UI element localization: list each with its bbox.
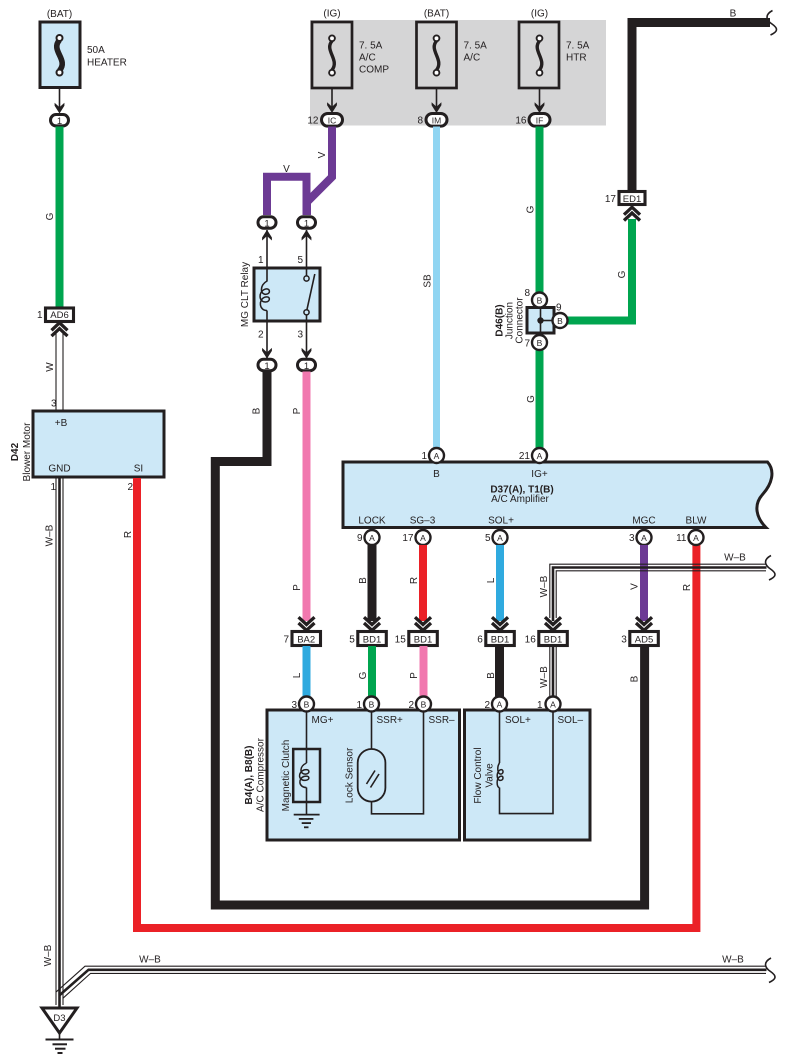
connector 3 AD5 xyxy=(630,632,659,646)
svg-text:(IG): (IG) xyxy=(531,9,548,20)
svg-text:GND: GND xyxy=(48,464,70,475)
arrow up (pin 1) xyxy=(262,230,272,241)
svg-text:IG+: IG+ xyxy=(531,469,548,480)
svg-text:11: 11 xyxy=(676,533,687,544)
arrow into IC xyxy=(327,102,337,113)
svg-text:15: 15 xyxy=(395,635,407,646)
svg-text:5: 5 xyxy=(349,635,355,646)
svg-text:(IG): (IG) xyxy=(323,9,340,20)
arrow into IM xyxy=(432,102,442,113)
svg-text:AD5: AD5 xyxy=(635,635,653,646)
svg-text:SOL+: SOL+ xyxy=(488,516,514,527)
svg-text:7. 5A: 7. 5A xyxy=(566,41,590,52)
svg-text:17: 17 xyxy=(402,533,414,544)
connector IM xyxy=(426,114,447,127)
svg-text:BD1: BD1 xyxy=(544,635,562,646)
connector 1 (relay pin 3 bottom) xyxy=(298,359,316,370)
svg-text:17: 17 xyxy=(605,194,617,205)
svg-text:G: G xyxy=(526,205,537,213)
svg-text:R: R xyxy=(123,531,134,538)
svg-text:G: G xyxy=(358,671,369,679)
connector IF xyxy=(529,114,550,127)
wire P (BD1 to compressor SSR-) xyxy=(420,646,428,697)
wire B (BD1 to compressor SOL+) xyxy=(495,646,504,697)
connector ED1 xyxy=(619,192,645,205)
relay switch xyxy=(306,268,308,276)
wire L (SOL+ to BD1) xyxy=(496,545,504,621)
chevron arrows into 5 BD1 xyxy=(364,617,380,624)
svg-text:B: B xyxy=(557,316,563,326)
svg-text:21: 21 xyxy=(519,451,531,462)
svg-text:R: R xyxy=(682,584,693,591)
connector 7 BA2 xyxy=(292,632,321,646)
svg-text:1: 1 xyxy=(264,361,269,372)
wire G (BD1 to compressor SSR+) xyxy=(368,646,376,697)
lead to relay pin 5 xyxy=(306,230,308,268)
svg-text:BD1: BD1 xyxy=(414,635,432,646)
lead from 50A fuse xyxy=(59,88,61,113)
svg-text:SG–3: SG–3 xyxy=(410,516,436,527)
svg-text:6: 6 xyxy=(477,635,483,646)
svg-text:2: 2 xyxy=(484,700,490,711)
fuse 7.5A A/C xyxy=(417,9,488,89)
svg-text:L: L xyxy=(486,577,497,583)
pin 2 B (SSR-) xyxy=(416,697,431,712)
svg-text:9: 9 xyxy=(357,533,363,544)
svg-text:1: 1 xyxy=(304,361,309,372)
svg-text:B: B xyxy=(537,338,543,348)
wire W (AD6 to blower +B) xyxy=(55,332,57,410)
svg-text:(BAT): (BAT) xyxy=(47,9,72,20)
svg-text:D42: D42 xyxy=(10,442,21,461)
svg-text:A: A xyxy=(434,451,440,461)
svg-text:8: 8 xyxy=(417,116,423,127)
wire W-B (branch to right, bottom) xyxy=(56,966,766,992)
lead from A/C COMP fuse xyxy=(331,88,333,111)
svg-text:IF: IF xyxy=(536,115,544,125)
A/C compressor B4(A), B8(B) xyxy=(267,710,460,840)
svg-text:BA2: BA2 xyxy=(297,635,315,646)
connector AD6 xyxy=(46,308,74,322)
svg-text:50A: 50A xyxy=(87,45,105,56)
lead from relay pin 2 xyxy=(266,321,268,358)
svg-text:L: L xyxy=(292,672,303,678)
wire B (relay pin 2 to AD5 leg, thick black run) xyxy=(215,372,644,906)
svg-text:A: A xyxy=(537,451,543,461)
connector 5 BD1 xyxy=(358,632,387,646)
wire break symbol (right, W-B) xyxy=(766,556,776,581)
svg-text:G: G xyxy=(45,212,56,220)
svg-text:3: 3 xyxy=(291,700,297,711)
svg-text:1: 1 xyxy=(258,255,264,266)
svg-text:V: V xyxy=(283,164,290,175)
svg-text:1: 1 xyxy=(37,310,43,321)
chevron arrows into 16 BD1 xyxy=(545,617,561,624)
pin 9 B (junction right) xyxy=(553,313,568,328)
svg-text:B: B xyxy=(486,672,497,679)
svg-text:3: 3 xyxy=(51,399,57,410)
svg-text:1: 1 xyxy=(304,218,309,229)
magnetic clutch xyxy=(306,711,308,763)
wire W-B (16 BD1 to compressor SOL-) xyxy=(549,646,551,697)
svg-text:7: 7 xyxy=(283,635,289,646)
svg-text:W–B: W–B xyxy=(722,955,744,966)
svg-text:Valve: Valve xyxy=(485,763,496,788)
pin 8 B (junction top) xyxy=(532,293,547,308)
connector 1 (relay pin 1 top) xyxy=(258,217,276,228)
svg-text:2: 2 xyxy=(127,482,133,493)
chevron arrows into 6 BD1 xyxy=(492,617,508,624)
svg-text:3: 3 xyxy=(621,635,627,646)
chevron arrows into 15 BD1 xyxy=(415,617,431,624)
svg-text:SOL–: SOL– xyxy=(558,715,584,726)
svg-text:A/C: A/C xyxy=(359,53,376,64)
svg-text:BLW: BLW xyxy=(686,516,707,527)
svg-text:7: 7 xyxy=(524,339,530,350)
svg-text:V: V xyxy=(317,151,328,158)
relay MG CLT Relay xyxy=(254,268,320,321)
svg-text:8: 8 xyxy=(524,288,530,299)
svg-text:W–B: W–B xyxy=(724,553,746,564)
lead from A/C fuse xyxy=(436,88,438,111)
svg-text:W: W xyxy=(45,362,56,372)
wire W-B (16 BD1 up and right to break) xyxy=(550,564,766,618)
arrow into IF xyxy=(535,102,545,113)
fuse panel (gray) xyxy=(310,20,606,126)
svg-text:5: 5 xyxy=(297,255,303,266)
svg-text:R: R xyxy=(409,577,420,584)
svg-text:W–B: W–B xyxy=(539,666,550,688)
svg-text:IM: IM xyxy=(432,115,441,125)
flow control valve xyxy=(499,711,501,763)
fuse 50A HEATER xyxy=(40,9,127,88)
svg-text:9: 9 xyxy=(556,303,562,314)
wire G (50A fuse to AD6) xyxy=(56,127,64,308)
svg-text:W–B: W–B xyxy=(539,575,550,597)
svg-text:MG+: MG+ xyxy=(312,715,334,726)
svg-text:1: 1 xyxy=(356,700,362,711)
lead from HTR fuse xyxy=(539,88,541,111)
chevron arrows into ED1 xyxy=(624,207,640,215)
pin 1 A (amplifier B) xyxy=(429,448,444,463)
pin 9 A (LOCK) xyxy=(365,530,380,545)
svg-text:Connector: Connector xyxy=(515,297,526,344)
svg-text:A: A xyxy=(641,533,647,543)
svg-text:B: B xyxy=(630,675,641,682)
svg-text:A: A xyxy=(550,700,556,710)
wire V (IC to relay connectors) xyxy=(307,127,332,216)
connector IC xyxy=(322,114,343,127)
svg-text:3: 3 xyxy=(297,330,303,341)
svg-text:COMP: COMP xyxy=(359,65,389,76)
svg-text:W–B: W–B xyxy=(139,955,161,966)
svg-text:1: 1 xyxy=(264,218,269,229)
svg-text:SSR–: SSR– xyxy=(429,715,456,726)
chevron arrows into BA2 xyxy=(299,617,315,624)
svg-text:3: 3 xyxy=(629,533,635,544)
svg-text:A/C: A/C xyxy=(464,53,481,64)
connector 1 (relay pin 2 bottom) xyxy=(258,359,276,370)
svg-text:P: P xyxy=(409,672,420,679)
svg-text:SSR+: SSR+ xyxy=(377,715,404,726)
ground D3 xyxy=(42,1008,77,1053)
svg-text:G: G xyxy=(617,270,628,278)
svg-text:1: 1 xyxy=(421,451,427,462)
connector 15 BD1 xyxy=(409,632,438,646)
lead from relay pin 3 xyxy=(306,321,308,358)
wire B (LOCK to BD1) xyxy=(368,545,377,621)
ground (magnetic clutch) xyxy=(294,814,320,816)
svg-text:7. 5A: 7. 5A xyxy=(464,41,488,52)
wire R (blower SI to BLW, thick red run) xyxy=(137,478,696,928)
svg-text:A/C Compressor: A/C Compressor xyxy=(256,737,267,812)
wire R (SG-3 to BD1) xyxy=(419,545,427,621)
wire B (battery feed, top right) xyxy=(632,23,770,193)
svg-text:B: B xyxy=(421,700,427,710)
svg-text:HTR: HTR xyxy=(566,53,587,64)
lock sensor xyxy=(371,711,373,749)
svg-text:B: B xyxy=(369,700,375,710)
svg-text:A: A xyxy=(497,533,503,543)
pin 1 B (SSR+) xyxy=(364,697,379,712)
wire V (MGC to AD5) xyxy=(640,545,648,621)
wire break symbol (top right) xyxy=(767,11,777,36)
pin 3 B (MG+) xyxy=(299,697,314,712)
wire G (IF to junction connector) xyxy=(536,127,544,295)
svg-text:1: 1 xyxy=(57,116,62,127)
svg-text:B: B xyxy=(358,577,369,584)
svg-text:A: A xyxy=(497,700,503,710)
svg-text:16: 16 xyxy=(525,635,537,646)
svg-text:5: 5 xyxy=(485,533,491,544)
pin 7 B (junction bottom) xyxy=(532,335,547,350)
svg-text:BD1: BD1 xyxy=(491,635,509,646)
chevron arrows into AD6 xyxy=(52,323,68,331)
svg-text:16: 16 xyxy=(515,116,527,127)
pin 1 A (SOL-) xyxy=(546,697,561,712)
svg-text:7. 5A: 7. 5A xyxy=(359,41,383,52)
connector 1 (relay pin 5 top) xyxy=(298,217,316,228)
svg-text:ED1: ED1 xyxy=(623,194,641,205)
svg-text:B: B xyxy=(252,407,263,414)
A/C amplifier D37(A), T1(B) xyxy=(343,462,772,528)
svg-text:B: B xyxy=(304,700,310,710)
svg-text:+B: +B xyxy=(55,418,68,429)
svg-text:Lock Sensor: Lock Sensor xyxy=(345,747,356,803)
wire W-B (blower GND to ground D3) xyxy=(55,478,57,1005)
wire L (BA2 to compressor MG+) xyxy=(303,646,311,697)
connector 1 (below 50A fuse) xyxy=(51,115,69,126)
wire G (junction to ED1) xyxy=(566,219,632,321)
pin 5 A (SOL+) xyxy=(493,530,508,545)
svg-text:BD1: BD1 xyxy=(363,635,381,646)
svg-text:Flow Control: Flow Control xyxy=(473,747,484,803)
svg-text:IC: IC xyxy=(328,115,337,125)
arrow down (pin 3) xyxy=(302,348,312,359)
svg-text:B: B xyxy=(730,9,737,20)
arrow down (pin 2) xyxy=(262,348,272,359)
svg-text:G: G xyxy=(526,395,537,403)
wire SB (IM to amplifier B) xyxy=(433,127,440,449)
svg-text:P: P xyxy=(292,407,303,414)
svg-text:A: A xyxy=(420,533,426,543)
svg-text:D3: D3 xyxy=(53,1013,65,1024)
fuse 7.5A A/C COMP xyxy=(312,9,389,89)
svg-text:P: P xyxy=(292,584,303,591)
svg-text:B: B xyxy=(537,296,543,306)
svg-text:2: 2 xyxy=(408,700,414,711)
arrow into connector 1 xyxy=(55,103,65,114)
svg-text:B: B xyxy=(433,469,440,480)
svg-text:W–B: W–B xyxy=(43,944,54,966)
pin 11 A (BLW) xyxy=(689,530,704,545)
lead to relay pin 1 xyxy=(266,230,268,268)
svg-text:Magnetic Clutch: Magnetic Clutch xyxy=(281,740,292,812)
svg-text:SOL+: SOL+ xyxy=(505,715,531,726)
svg-text:HEATER: HEATER xyxy=(87,58,127,69)
svg-text:AD6: AD6 xyxy=(50,310,68,321)
svg-text:A: A xyxy=(693,533,699,543)
svg-text:LOCK: LOCK xyxy=(358,516,386,527)
fuse 7.5A HTR xyxy=(519,9,590,89)
svg-text:A/C Amplifier: A/C Amplifier xyxy=(491,494,549,505)
svg-text:V: V xyxy=(630,583,641,590)
svg-text:A: A xyxy=(369,533,375,543)
wire P (relay pin 3 to BA2) xyxy=(303,372,311,622)
junction connector D46(B) xyxy=(527,308,554,334)
svg-text:12: 12 xyxy=(307,116,319,127)
pin 2 A (SOL+) xyxy=(492,697,507,712)
svg-text:SB: SB xyxy=(423,274,434,288)
svg-text:1: 1 xyxy=(537,700,543,711)
svg-text:2: 2 xyxy=(258,330,264,341)
connector 6 BD1 xyxy=(486,632,515,646)
svg-text:MG CLT Relay: MG CLT Relay xyxy=(240,262,251,327)
pin 21 A (amplifier IG+) xyxy=(532,448,547,463)
svg-text:MGC: MGC xyxy=(632,516,655,527)
svg-text:B4(A), B8(B): B4(A), B8(B) xyxy=(244,746,255,805)
arrow up (pin 5) xyxy=(302,230,312,241)
relay coil xyxy=(266,268,268,321)
blower motor D42 xyxy=(33,411,164,477)
chevron arrows into 3 AD5 xyxy=(636,617,652,624)
svg-text:W–B: W–B xyxy=(45,524,56,546)
svg-text:Blower Motor: Blower Motor xyxy=(22,422,33,482)
wire break symbol (bottom right) xyxy=(766,958,776,983)
connector 16 BD1 xyxy=(539,632,568,646)
svg-text:SI: SI xyxy=(134,464,143,475)
svg-text:(BAT): (BAT) xyxy=(424,9,449,20)
wire G (junction to amplifier IG+) xyxy=(536,348,544,448)
pin 17 A (SG-3) xyxy=(416,530,431,545)
pin 3 A (MGC) xyxy=(637,530,652,545)
